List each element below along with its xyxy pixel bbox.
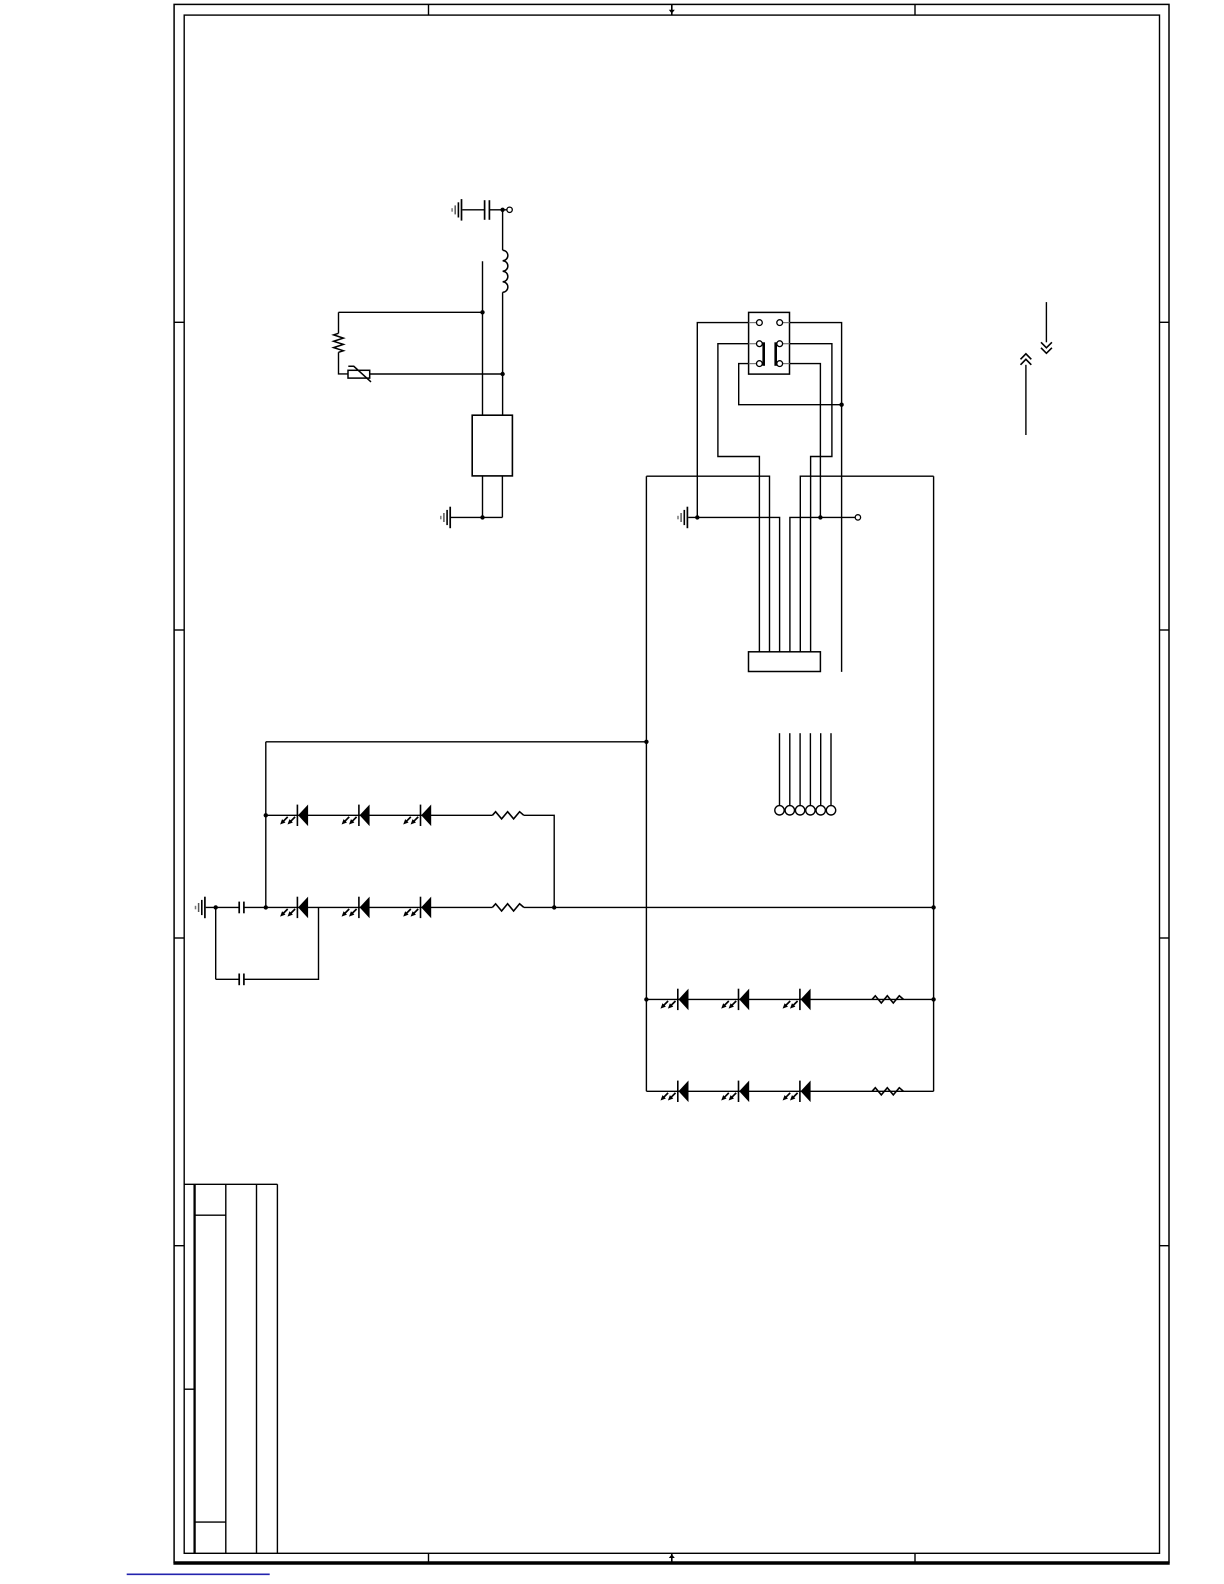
wire G1 to C1 <box>462 209 484 211</box>
connector J1 <box>749 652 821 672</box>
LED D4 <box>280 897 308 919</box>
terminal circle right <box>855 515 860 520</box>
relay pin circle 2 <box>777 320 783 326</box>
border tick bottom x915 <box>914 1553 916 1563</box>
wire relay top-right down long <box>790 323 842 672</box>
big box top-left segment to pin2 <box>646 476 769 652</box>
node thermistor junction <box>500 372 504 376</box>
wire relay mid-right to connector pin6 <box>790 344 832 652</box>
wire left block vertical x265 <box>265 742 267 908</box>
inductor L1 <box>503 250 508 292</box>
LED D5 <box>342 897 370 919</box>
resistor R2 row1 <box>492 812 523 819</box>
wire relay mid-left to connector pin1 <box>718 344 760 652</box>
wire bypass bottom right <box>244 907 319 979</box>
border outer frame <box>174 4 1169 1562</box>
wire relay top-left to ground node <box>697 323 748 518</box>
node big box right y907 <box>931 905 935 909</box>
node row3 right <box>931 997 935 1001</box>
wire G2 across <box>451 516 502 518</box>
border inner frame <box>184 15 1159 1553</box>
relay pin circle 6 <box>777 361 783 367</box>
LED D10 <box>661 1081 689 1103</box>
title block divider y1522 <box>195 1521 226 1523</box>
wire terminal to connector pin4 <box>790 517 855 651</box>
node top-left terminal junction <box>500 208 504 212</box>
wire y312 horizontal <box>339 311 483 313</box>
pendulum circle 1 <box>775 806 784 815</box>
border centering arrow top <box>669 4 675 15</box>
node big box left y741 <box>644 740 648 744</box>
title block vertical 225 <box>225 1184 227 1553</box>
relay pin circle 4 <box>777 341 783 347</box>
hyperlink underline bottom-left <box>127 1573 270 1575</box>
title block strip divider y1389 <box>184 1388 194 1390</box>
thermistor RT1 <box>348 366 371 382</box>
capacitor C3 <box>239 974 244 986</box>
title block bold vertical <box>193 1184 195 1553</box>
LED D11 <box>721 1081 749 1103</box>
wire G4 to C2 <box>206 906 240 908</box>
wire relay bot-left to node 841 <box>739 364 842 405</box>
border tick left y1245 <box>174 1245 184 1247</box>
border centering arrow bottom <box>669 1553 675 1563</box>
pendulum wire 6 <box>830 733 832 805</box>
ground G1 top-left <box>452 199 461 221</box>
border tick right y938 <box>1160 937 1170 939</box>
wire row1 <box>266 814 493 816</box>
border tick right y322 <box>1160 321 1170 323</box>
off-page arrow down <box>1041 302 1052 353</box>
relay contact bar left <box>762 342 765 366</box>
border tick left y630 <box>174 629 184 631</box>
wire row2 long to big box right edge <box>524 906 934 908</box>
pendulum circle 3 <box>795 806 804 815</box>
wire x338 down to R1 <box>338 312 340 333</box>
relay pin circle 1 <box>757 320 763 326</box>
LED D12 <box>783 1081 811 1103</box>
pendulum wire 2 <box>789 733 791 805</box>
wire R1 down to corner <box>339 352 349 374</box>
pendulum wire 3 <box>799 733 801 805</box>
relay contact bar right <box>774 342 777 366</box>
LED D3 <box>403 805 431 827</box>
wire row3 <box>646 998 933 1000</box>
border tick top x915 <box>914 4 916 15</box>
pendulum wire 1 <box>779 733 781 805</box>
transformer box X1 <box>472 415 512 476</box>
title block vertical 256 <box>256 1184 258 1553</box>
wire row4 bottom edge <box>646 1090 933 1092</box>
wire left block top y741 <box>266 741 647 743</box>
pendulum circle 6 <box>826 806 835 815</box>
border outer bottom thick edge <box>173 1562 1169 1565</box>
node G2 junction <box>480 515 484 519</box>
relay pin circle 5 <box>757 361 763 367</box>
node row2 x554 <box>552 905 556 909</box>
node row2 x265 <box>264 905 268 909</box>
LED D1 <box>280 805 308 827</box>
LED D7 <box>661 989 689 1011</box>
terminal circle top-left <box>507 207 512 212</box>
border tick top x428 <box>428 4 430 15</box>
resistor R4 row3 <box>872 996 903 1003</box>
capacitor C2 <box>239 902 244 914</box>
resistor R5 row4 <box>872 1088 903 1095</box>
title block divider y1215 <box>195 1214 226 1216</box>
title block outline <box>184 1184 277 1553</box>
border tick left y322 <box>174 321 184 323</box>
LED D6 <box>403 897 431 919</box>
pendulum circle 4 <box>806 806 815 815</box>
resistor R1 vertical <box>334 333 344 352</box>
border tick bottom x428 <box>428 1553 430 1563</box>
off-page arrow up <box>1021 354 1032 435</box>
resistor R3 row2 <box>492 904 523 911</box>
relay pin stubs inside <box>749 323 790 364</box>
wire row2 <box>297 906 492 908</box>
wire bypass loop left <box>215 907 217 979</box>
border tick left y938 <box>174 937 184 939</box>
wire relay bot-right to terminal node <box>790 364 821 518</box>
pendulum circle 2 <box>785 806 794 815</box>
node x482 y312 <box>480 310 484 314</box>
relay box K1 <box>749 312 790 374</box>
ground G2 <box>441 507 450 529</box>
LED D2 <box>342 805 370 827</box>
wire C2 to row2 <box>244 906 298 908</box>
big box top-right segment to pin5 <box>800 476 933 652</box>
pendulum wire 4 <box>809 733 811 805</box>
node terminal junction <box>818 515 822 519</box>
LED D9 <box>783 989 811 1011</box>
pendulum circle 5 <box>816 806 825 815</box>
node row3 left <box>644 997 648 1001</box>
pendulum wire 5 <box>820 733 822 805</box>
ground G3 <box>678 507 687 529</box>
node G4 junction <box>214 905 218 909</box>
node 841 <box>839 403 843 407</box>
wire X1 left leg down <box>482 476 484 518</box>
node G3 junction <box>695 515 699 519</box>
LED D8 <box>721 989 749 1011</box>
wire bypass bottom left <box>216 978 240 980</box>
big box left edge <box>645 476 647 1091</box>
relay pin circle 3 <box>757 341 763 347</box>
wire G3 to connector pin3 <box>688 517 779 651</box>
wire RT1 to node374 <box>370 373 503 375</box>
wire L1 to node374 <box>502 292 504 415</box>
border tick right y630 <box>1160 629 1170 631</box>
ground G4 <box>196 897 205 919</box>
big box right edge <box>933 476 935 1091</box>
node row1 left <box>264 813 268 817</box>
wire C1 to node <box>489 209 506 211</box>
wire node down to L1 <box>502 210 504 250</box>
border tick right y1245 <box>1160 1245 1170 1247</box>
wire X1 right leg down <box>501 476 503 518</box>
wire stub x482 above node <box>482 261 484 415</box>
wire row1 to row2 corner <box>524 815 554 907</box>
capacitor C1 <box>485 200 490 220</box>
